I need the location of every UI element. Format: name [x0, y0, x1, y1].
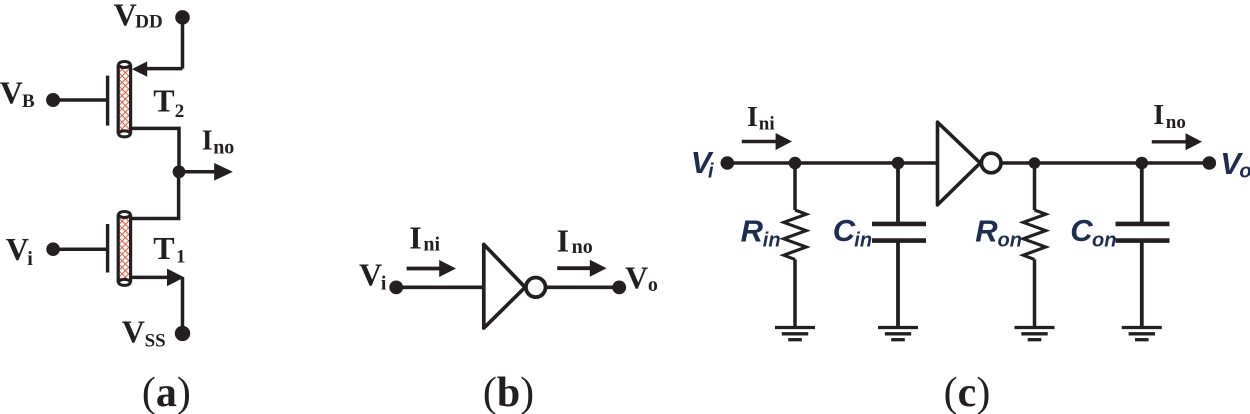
svg-text:I: I — [409, 219, 421, 255]
node VSS terminal dot — [175, 326, 190, 341]
svg-text:in: in — [763, 230, 781, 252]
node Vi terminal dot (a) — [46, 242, 60, 256]
svg-text:2: 2 — [175, 101, 185, 122]
arrow Ino (c) — [1152, 133, 1202, 150]
node Vi dot (c) — [721, 156, 735, 170]
svg-text:i: i — [381, 273, 387, 295]
svg-text:C: C — [1070, 213, 1093, 248]
wire T1 source down to VSS — [181, 277, 185, 333]
ground Con — [1122, 328, 1162, 340]
inverter triangle (b) — [484, 244, 525, 328]
svg-text:(a): (a) — [142, 370, 191, 414]
svg-text:I: I — [202, 126, 213, 157]
svg-text:(b): (b) — [483, 370, 534, 414]
gate bar T1 — [106, 224, 109, 273]
resistor Ron — [1023, 163, 1046, 328]
svg-text:ni: ni — [423, 233, 440, 255]
ground Ron — [1015, 328, 1055, 340]
svg-text:I: I — [747, 102, 758, 133]
ground Cin — [878, 328, 918, 340]
transistor T1 channel — [118, 212, 130, 286]
inverter triangle (c) — [938, 122, 981, 205]
node Vo dot (b) — [612, 281, 626, 295]
wire inverter to Vo (b) — [546, 285, 620, 289]
node output junction dot — [173, 165, 186, 178]
ground Rin — [775, 328, 815, 340]
capacitor Con — [1116, 163, 1170, 328]
node Cin junction dot — [892, 157, 905, 170]
svg-text:o: o — [1239, 160, 1250, 182]
node Vo dot (c) — [1203, 156, 1217, 170]
node Con junction dot — [1136, 157, 1149, 170]
svg-text:V: V — [0, 74, 23, 110]
wire input main line (c) — [727, 161, 937, 165]
svg-text:on: on — [998, 230, 1022, 252]
svg-text:V: V — [6, 231, 29, 267]
svg-text:C: C — [833, 213, 856, 248]
svg-text:i: i — [27, 248, 33, 270]
svg-text:V: V — [625, 259, 648, 295]
svg-text:1: 1 — [176, 247, 186, 268]
node Vi dot (b) — [389, 281, 403, 295]
wire T1 source with arrow — [130, 269, 184, 287]
wire VDD vertical — [181, 17, 185, 68]
svg-text:ni: ni — [759, 114, 775, 135]
resistor Rin — [784, 163, 807, 328]
svg-text:V: V — [114, 0, 137, 33]
svg-text:R: R — [975, 214, 998, 249]
svg-text:no: no — [1166, 112, 1186, 133]
arrow Ino (b) — [557, 260, 606, 277]
svg-text:(c): (c) — [944, 370, 991, 414]
arrow Ino output (a) — [179, 163, 233, 181]
arrow Ini (c) — [742, 133, 792, 150]
arrow Ini (b) — [407, 260, 456, 277]
node VDD terminal dot — [175, 10, 190, 25]
svg-text:V: V — [122, 313, 145, 349]
arrowhead into T2 source — [132, 61, 147, 76]
transistor T2 channel — [118, 62, 130, 137]
svg-text:DD: DD — [135, 12, 162, 33]
svg-text:i: i — [708, 161, 714, 183]
svg-text:no: no — [213, 137, 234, 159]
wire VDD horizontal to T2 source — [146, 67, 183, 71]
wire output main line (c) — [1001, 161, 1209, 165]
gate bar T2 — [106, 76, 109, 126]
svg-text:on: on — [1092, 229, 1116, 251]
node Rin junction dot — [789, 157, 802, 170]
svg-text:I: I — [1153, 100, 1164, 131]
svg-text:T: T — [153, 83, 174, 119]
capacitor Cin — [872, 163, 926, 328]
svg-text:B: B — [22, 91, 35, 112]
svg-text:o: o — [648, 274, 658, 296]
node Ron junction dot — [1029, 157, 1041, 169]
wire Vi gate lead — [53, 247, 106, 251]
svg-text:T: T — [153, 230, 174, 266]
svg-text:V: V — [359, 257, 382, 293]
svg-text:in: in — [854, 229, 872, 251]
wire T2 drain to output node — [130, 128, 179, 171]
svg-text:no: no — [572, 236, 593, 258]
node VB terminal dot — [46, 93, 60, 107]
svg-text:I: I — [557, 223, 569, 259]
svg-text:R: R — [741, 214, 764, 249]
wire VB gate lead — [53, 98, 106, 102]
svg-text:SS: SS — [145, 331, 166, 352]
inverter bubble (b) — [526, 278, 546, 298]
wire Vi to inverter (b) — [396, 285, 484, 289]
inverter bubble (c) — [981, 153, 1001, 173]
wire output node to T1 drain — [130, 172, 179, 219]
